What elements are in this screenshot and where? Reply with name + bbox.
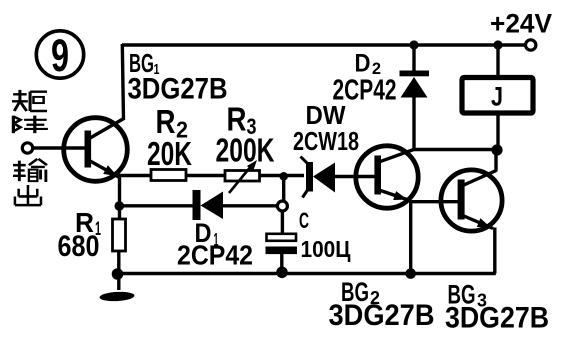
svg-text:9: 9 — [51, 30, 69, 81]
svg-text:D: D — [355, 50, 371, 78]
svg-text:3DG27B: 3DG27B — [128, 73, 228, 106]
svg-text:200K: 200K — [216, 132, 275, 169]
svg-text:2CW18: 2CW18 — [293, 126, 359, 156]
svg-text:3DG27B: 3DG27B — [445, 302, 549, 335]
svg-text:+24V: +24V — [490, 9, 552, 39]
svg-text:J: J — [491, 82, 503, 112]
svg-text:2CP42: 2CP42 — [177, 240, 253, 271]
svg-text:C: C — [299, 208, 309, 233]
svg-text:100Ц: 100Ц — [301, 236, 351, 262]
svg-text:20K: 20K — [147, 135, 192, 172]
svg-text:680: 680 — [58, 230, 100, 263]
svg-text:3DG27B: 3DG27B — [329, 299, 435, 332]
